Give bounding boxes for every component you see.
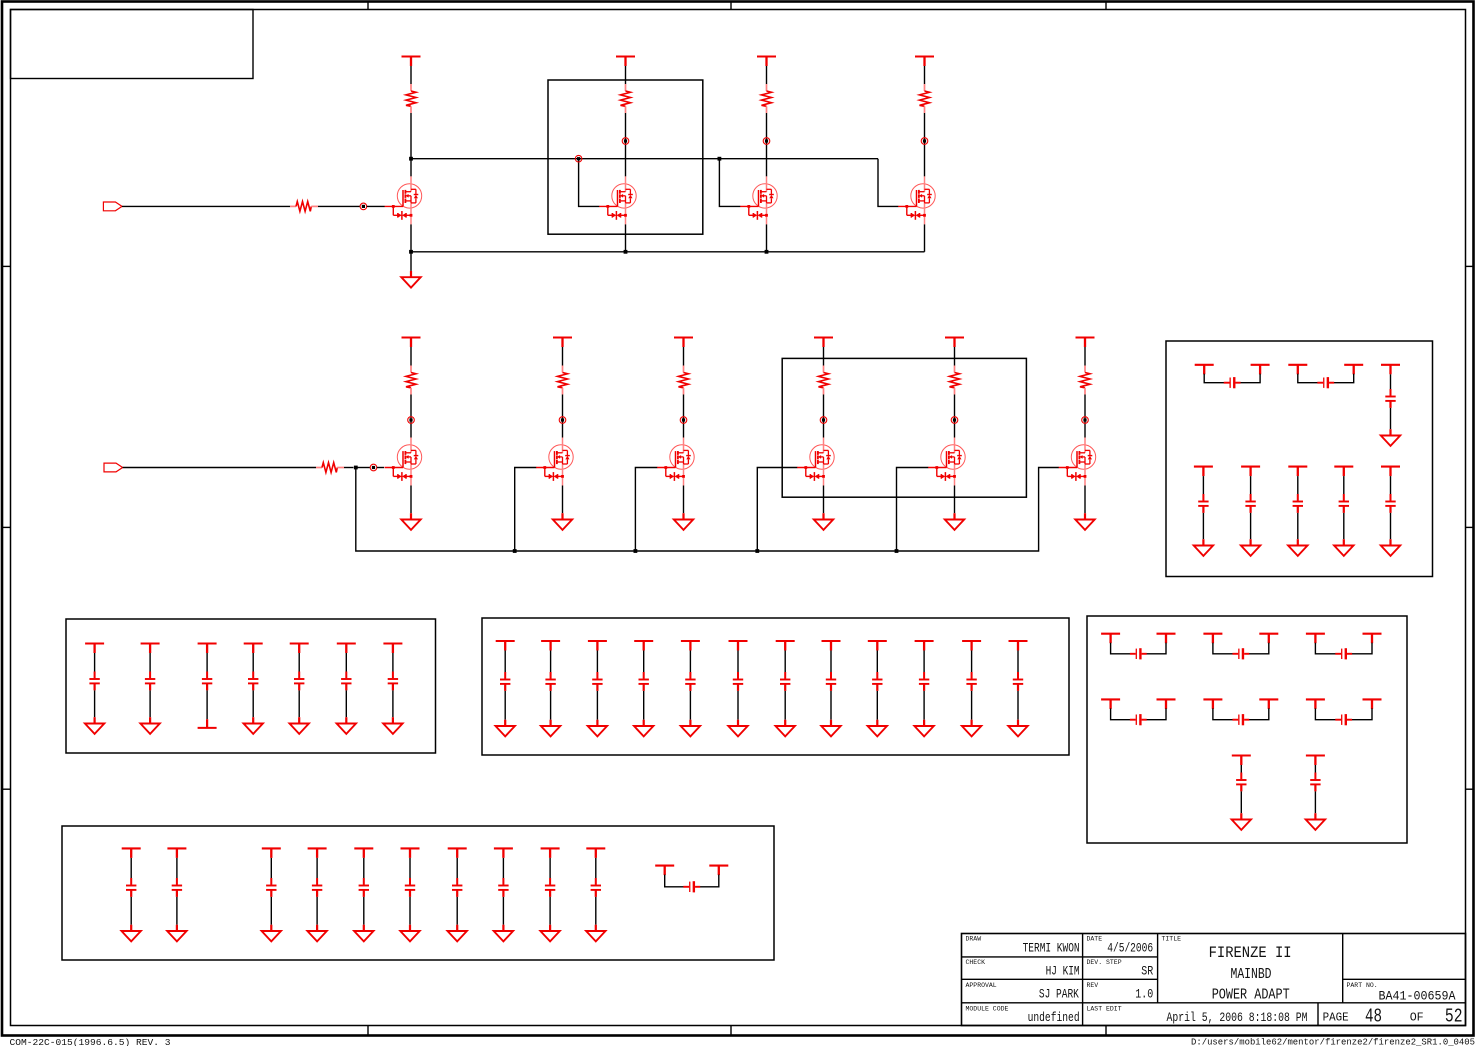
svg-text:SJ PARK: SJ PARK [1039,987,1079,1002]
svg-text:APPROVAL: APPROVAL [966,982,997,989]
svg-text:undefined: undefined [1028,1010,1080,1025]
svg-text:FIRENZE II: FIRENZE II [1209,944,1292,962]
svg-text:TERMI KWON: TERMI KWON [1023,941,1080,956]
svg-text:HJ KIM: HJ KIM [1046,964,1080,979]
svg-text:COM-22C-015(1996.6.5) REV. 3: COM-22C-015(1996.6.5) REV. 3 [10,1037,171,1046]
svg-text:MAINBD: MAINBD [1231,966,1272,983]
svg-text:DRAW: DRAW [966,936,982,943]
svg-text:52: 52 [1445,1006,1463,1028]
svg-text:DEV. STEP: DEV. STEP [1087,959,1122,966]
svg-text:BA41-00659A: BA41-00659A [1379,989,1456,1004]
svg-text:SR: SR [1141,964,1153,979]
svg-text:1.0: 1.0 [1135,987,1153,1002]
svg-text:REV: REV [1087,982,1099,989]
svg-text:April 5, 2006 8:18:08 PM: April 5, 2006 8:18:08 PM [1167,1010,1308,1025]
svg-text:D:/users/mobile62/mentor/firen: D:/users/mobile62/mentor/firenze2/firenz… [1191,1036,1475,1046]
svg-text:OF: OF [1410,1011,1424,1025]
svg-text:PART NO.: PART NO. [1347,982,1378,989]
svg-text:PAGE: PAGE [1323,1011,1349,1025]
svg-text:POWER ADAPT: POWER ADAPT [1212,987,1290,1004]
svg-text:48: 48 [1365,1006,1382,1028]
svg-text:DATE: DATE [1087,936,1103,943]
svg-text:TITLE: TITLE [1162,936,1182,943]
svg-text:4/5/2006: 4/5/2006 [1107,941,1153,956]
svg-text:MODULE CODE: MODULE CODE [966,1006,1009,1013]
svg-text:CHECK: CHECK [966,959,986,966]
svg-text:LAST EDIT: LAST EDIT [1087,1006,1122,1013]
